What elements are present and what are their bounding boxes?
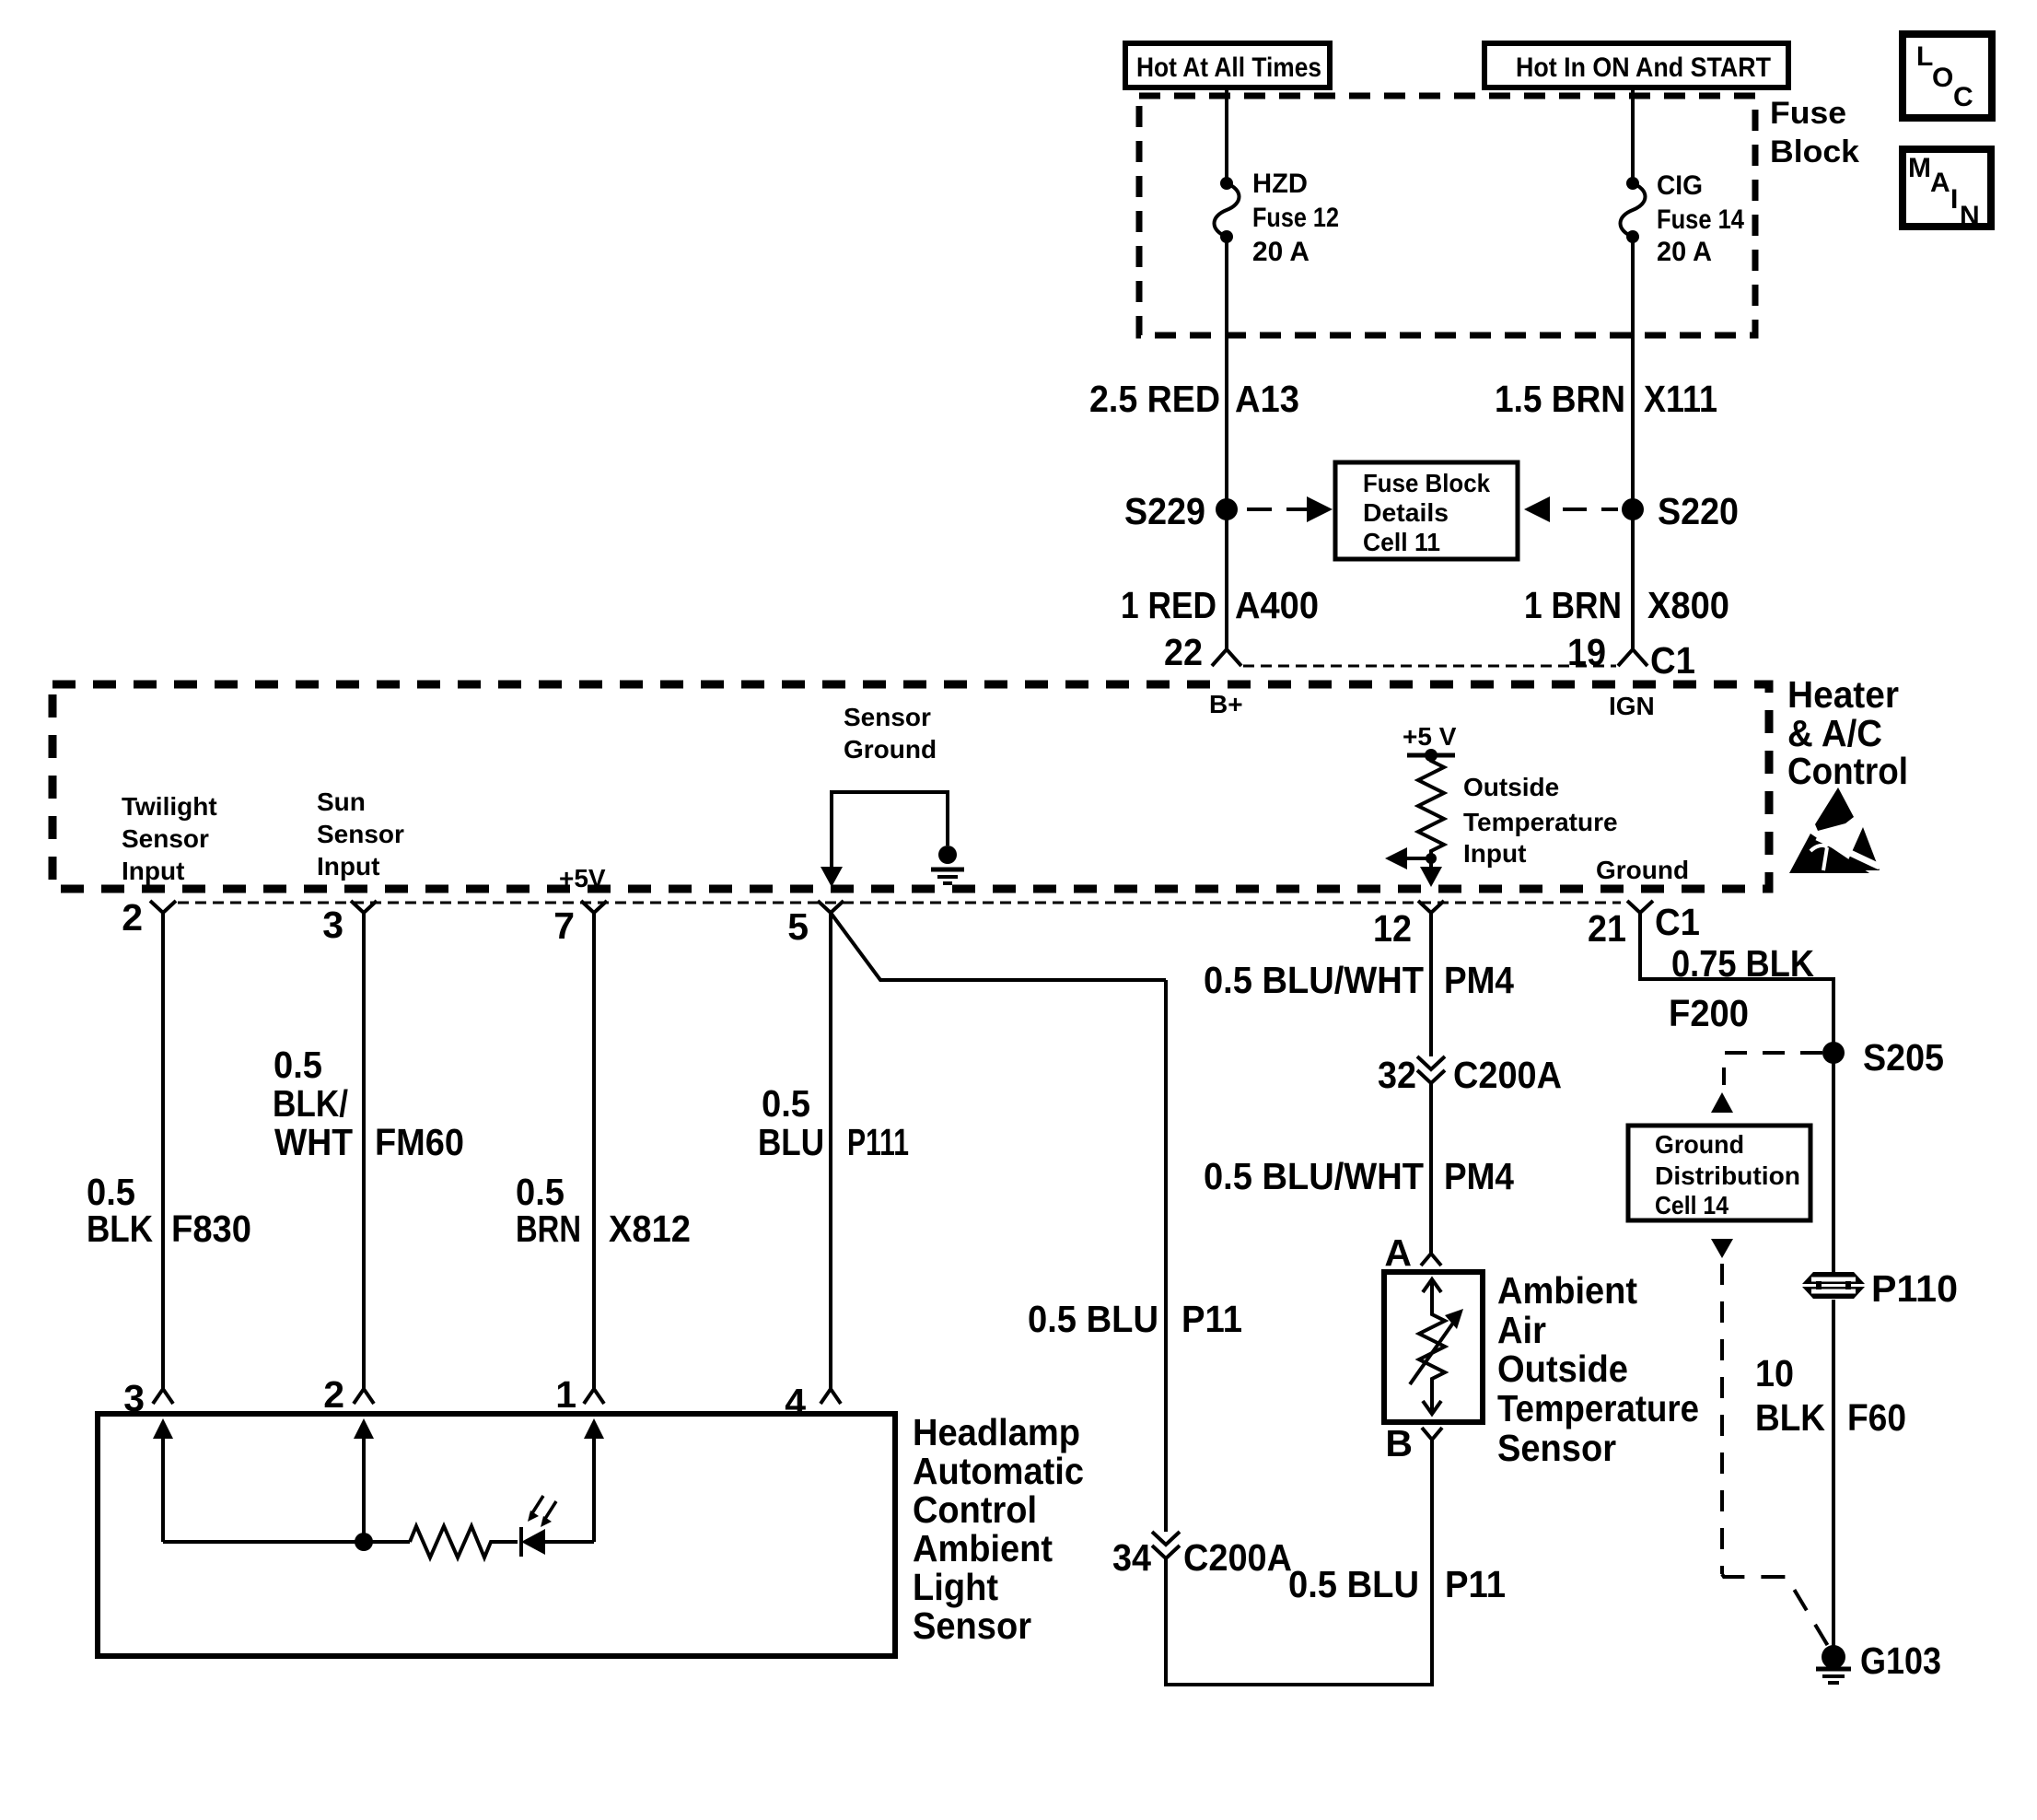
svg-text:& A/C: & A/C [1787,712,1882,754]
svg-text:Ground: Ground [1655,1130,1744,1159]
label: 0.5 BLU P11 (lower) [1288,1563,1506,1605]
svg-text:BLK/: BLK/ [273,1082,348,1125]
svg-text:BLK: BLK [1755,1396,1825,1439]
svg-text:X800: X800 [1647,584,1729,626]
svg-text:B+: B+ [1209,690,1243,718]
svg-text:S220: S220 [1658,490,1739,532]
svg-text:Details: Details [1363,498,1449,527]
svg-text:Twilight: Twilight [122,792,217,821]
svg-text:S205: S205 [1863,1036,1944,1079]
fuse block dashed box [1139,96,1755,335]
label: 1 BRN X800 [1524,584,1729,626]
pass-through grommet P110 [1802,1267,1958,1310]
photodiode (sensor internal) [521,1527,594,1557]
label: 0.5 BLU P111 [758,1082,909,1163]
label: 0.5 BLU/WHT PM4 (upper) [1204,959,1514,1001]
svg-text:0.75 BLK: 0.75 BLK [1671,942,1814,985]
label: 10 BLK F60 [1755,1352,1906,1439]
wire: PM4 lower segment to sensor pin A [1429,1083,1433,1254]
thin dashed connector line between pins 22 and 19 [1243,665,1616,668]
wire: branch from pin 5 to P11 run [831,913,1166,980]
svg-text:Control: Control [1787,750,1908,792]
internal wire with up arrow (sensor pin 2) [354,1418,374,1542]
pin 2 (sensor) [323,1373,374,1416]
internal bus wire [163,1540,410,1544]
svg-text:Sensor: Sensor [844,703,931,731]
label: 0.5 BLK/WHT FM60 [273,1044,464,1163]
svg-text:+5V: +5V [559,864,606,892]
svg-text:2: 2 [122,896,143,939]
svg-text:Ground: Ground [844,735,937,764]
svg-text:C200A: C200A [1453,1054,1562,1096]
svg-text:3: 3 [322,904,343,946]
svg-text:O: O [1932,63,1953,93]
svg-text:34: 34 [1112,1536,1151,1579]
label: 2.5 RED A13 [1089,378,1299,420]
svg-text:Light: Light [913,1566,998,1608]
pin 5 [787,901,844,948]
svg-text:A400: A400 [1235,584,1319,626]
svg-text:A: A [1384,1231,1412,1274]
svg-text:Automatic: Automatic [913,1450,1084,1492]
svg-text:Sensor: Sensor [913,1604,1031,1647]
connector C200A pin 34 [1112,1532,1292,1579]
connector C200A pin 32 [1378,1054,1562,1096]
svg-text:Ground: Ground [1596,856,1689,884]
label: Headlamp Automatic Control Ambient Light Sensor [913,1411,1084,1647]
svg-text:Block: Block [1770,134,1859,169]
reference box: Ground Distribution Cell 14 [1628,1126,1810,1220]
svg-text:Sensor: Sensor [122,824,209,853]
node S205 [1822,1036,1944,1079]
node S229 [1124,490,1238,532]
svg-text:10: 10 [1755,1352,1794,1394]
svg-text:20 A: 20 A [1657,237,1712,267]
svg-text:C1: C1 [1650,639,1695,682]
svg-text:Input: Input [317,852,379,881]
svg-text:22: 22 [1164,631,1203,673]
wire: P11 down to connector C200A pin 34 [1164,980,1168,1532]
svg-text:Hot At All Times: Hot At All Times [1136,52,1321,83]
svg-text:1 RED: 1 RED [1121,584,1216,626]
svg-text:32: 32 [1378,1054,1416,1096]
svg-text:PM4: PM4 [1444,959,1514,1001]
svg-text:Ambient: Ambient [1497,1269,1637,1312]
pin 12 [1373,901,1444,950]
svg-text:BLU: BLU [758,1121,824,1163]
light arrows into photodiode [528,1496,556,1527]
svg-text:C200A: C200A [1183,1536,1292,1579]
Ambient Air Outside Temperature Sensor box [1384,1272,1483,1422]
dashed arrow S220 to Fuse Block Details [1524,496,1618,522]
svg-text:0.5: 0.5 [274,1044,322,1086]
svg-text:F200: F200 [1669,992,1749,1034]
pin 2 [122,896,176,939]
svg-text:A: A [1930,168,1950,198]
svg-text:4: 4 [785,1381,806,1423]
svg-text:Fuse 14: Fuse 14 [1657,204,1744,235]
fuse F14 (CIG Fuse 14 20 A) [1621,177,1646,243]
svg-text:Distribution: Distribution [1655,1161,1800,1190]
label: 0.5 BLU/WHT PM4 (lower) [1204,1155,1514,1197]
svg-text:N: N [1960,201,1980,231]
wire: battery feed from Hot At All Times down to fuse 12 [1225,87,1228,183]
svg-text:BRN: BRN [516,1207,581,1250]
svg-text:0.5: 0.5 [762,1082,810,1125]
+5V supply bar and resistor (outside temperature input) [1407,749,1455,868]
svg-text:Sun: Sun [317,787,366,816]
svg-text:20 A: 20 A [1252,237,1309,267]
fuse F12 (HZD Fuse 12 20 A) [1215,177,1240,243]
svg-text:G103: G103 [1860,1639,1941,1682]
Headlamp Automatic Control Ambient Light Sensor box [98,1414,895,1656]
svg-text:P110: P110 [1871,1267,1958,1310]
label: 0.5 BLU P11 (upper) [1028,1298,1242,1340]
svg-text:P11: P11 [1181,1298,1242,1340]
svg-text:Outside: Outside [1463,773,1559,801]
svg-text:P11: P11 [1445,1563,1506,1605]
svg-text:WHT: WHT [274,1121,353,1163]
label: Sensor Ground [844,703,937,764]
wire: ignition feed from Hot In ON And START down to fuse 14 [1631,87,1635,183]
label: HZD Fuse 12 20 A [1252,169,1339,267]
svg-text:C: C [1953,82,1973,112]
svg-text:Headlamp: Headlamp [913,1411,1080,1453]
svg-text:P111: P111 [847,1121,909,1163]
svg-text:S229: S229 [1124,490,1205,532]
svg-text:F60: F60 [1847,1396,1906,1439]
thin dashed connector line (bottom pin row) [178,902,1621,904]
svg-text:PM4: PM4 [1444,1155,1514,1197]
svg-text:Control: Control [913,1488,1037,1531]
ESD sensitivity symbol [1789,787,1880,873]
dashed reference line Ground Distribution to G103 [1711,1239,1831,1651]
svg-text:Cell 14: Cell 14 [1655,1191,1729,1219]
svg-text:B: B [1385,1422,1413,1464]
wire: 10 BLK F60 [1832,1300,1835,1646]
internal wire with up arrow (sensor pin 3) [153,1418,173,1542]
svg-text:Heater: Heater [1787,673,1899,716]
svg-text:Fuse: Fuse [1770,96,1846,131]
svg-text:2: 2 [323,1373,344,1416]
svg-text:X111: X111 [1644,378,1717,420]
labels: Twilight Sensor Input [122,792,217,885]
svg-text:1: 1 [555,1373,576,1416]
left arrow (outside temperature input tap) [1385,847,1437,869]
pin 19 (IGN) [1567,631,1647,673]
labels: Outside Temperature Input [1463,773,1618,868]
svg-text:Air: Air [1497,1309,1546,1351]
label: 1.5 BRN X111 [1495,378,1717,420]
pin 21 [1588,901,1653,950]
svg-text:Cell 11: Cell 11 [1363,528,1440,556]
wire: 2.5 RED A13 segment [1225,237,1228,649]
svg-text:7: 7 [553,904,575,947]
thermistor symbol (ambient sensor internal) [1410,1279,1463,1414]
svg-text:Ambient: Ambient [913,1527,1053,1569]
wire: P11 lower run to sensor pin B [1166,1439,1432,1685]
svg-text:Hot In ON And START: Hot In ON And START [1516,52,1771,83]
MAIN reference box (top right) [1903,149,1991,231]
label: Heater & A/C Control [1787,673,1908,792]
svg-text:X812: X812 [609,1207,691,1250]
svg-text:Input: Input [122,857,184,885]
svg-text:CIG: CIG [1657,170,1703,201]
resistor (sensor internal) [410,1526,518,1557]
svg-text:Sensor: Sensor [1497,1427,1616,1469]
arrowhead down to pin 12 [1420,867,1442,887]
pin 1 (sensor) [555,1373,604,1416]
svg-text:0.5 BLU: 0.5 BLU [1288,1563,1419,1605]
junction dot (sensor internal) [355,1533,373,1551]
wire: sensor ground internal [832,792,948,873]
svg-text:Input: Input [1463,839,1526,868]
pin 22 (B+) [1164,631,1241,673]
svg-text:FM60: FM60 [375,1121,464,1163]
header box: Hot At All Times [1125,43,1330,87]
svg-text:M: M [1908,153,1931,183]
svg-text:A13: A13 [1235,378,1299,420]
node S220 [1622,490,1739,532]
header box: Hot In ON And START [1484,43,1788,87]
dashed reference line S205 to Ground Distribution [1711,1053,1822,1113]
wire: 0.5 BRN X812 (pin 7 to pin 1 of sensor) [592,913,596,1389]
arrowhead down at pin 5 internal [821,867,843,887]
wire: 0.5 BLU P111 (pin 5 to pin 4 of sensor) [829,913,832,1389]
label: 0.5 BLK F830 [87,1171,251,1250]
pin 4 (sensor) [785,1381,841,1423]
internal wire with up arrow (sensor pin 1) [584,1418,604,1542]
ground symbol (internal sensor ground) [931,846,964,883]
svg-text:I: I [1950,184,1958,215]
svg-text:1 BRN: 1 BRN [1524,584,1622,626]
label: Ambient Air Outside Temperature Sensor [1497,1269,1699,1469]
pin B (ambient sensor) [1385,1422,1442,1464]
svg-text:2.5 RED: 2.5 RED [1089,378,1220,420]
svg-text:0.5 BLU: 0.5 BLU [1028,1298,1158,1340]
svg-text:0.5 BLU/WHT: 0.5 BLU/WHT [1204,959,1424,1001]
svg-text:BLK: BLK [87,1207,153,1250]
svg-text:Outside: Outside [1497,1347,1628,1390]
pin 3 (sensor) [123,1377,173,1419]
LOC reference box (top right) [1903,34,1992,118]
svg-text:Fuse Block: Fuse Block [1363,469,1490,497]
wire: 0.75 BLK F200 from pin 21 [1640,913,1833,1272]
svg-text:5: 5 [787,905,809,948]
label: 0.5 BRN X812 [516,1171,691,1250]
svg-text:Sensor: Sensor [317,820,404,848]
wire: 0.5 BLK F830 (pin 2 to pin 3 of sensor) [161,913,165,1389]
svg-text:L: L [1916,41,1933,72]
svg-text:IGN: IGN [1609,692,1655,720]
wire: 0.5 BLU/WHT PM4 from pin 12 [1429,913,1433,1056]
label: CIG Fuse 14 20 A [1657,170,1744,267]
svg-text:HZD: HZD [1252,169,1308,199]
labels: Sun Sensor Input [317,787,404,881]
pin 7 [553,901,607,947]
svg-text:12: 12 [1373,907,1412,950]
svg-text:F830: F830 [171,1207,251,1250]
pin 3 [322,901,377,946]
label: 1 RED A400 [1121,584,1319,626]
svg-text:1.5 BRN: 1.5 BRN [1495,378,1625,420]
Heater & A/C Control dashed box [52,684,1769,889]
svg-text:0.5 BLU/WHT: 0.5 BLU/WHT [1204,1155,1424,1197]
pin A (ambient sensor) [1384,1231,1441,1274]
svg-text:Temperature: Temperature [1463,808,1618,836]
dashed arrow S229 to Fuse Block Details [1247,496,1333,522]
svg-text:+5 V: +5 V [1403,722,1457,751]
ground G103 [1816,1639,1941,1683]
svg-text:Temperature: Temperature [1497,1387,1699,1429]
label: Fuse Block [1770,96,1859,169]
svg-text:Fuse 12: Fuse 12 [1252,203,1339,233]
wire: 1.5 BRN X111 segment [1631,237,1635,649]
wire: 0.5 BLK/WHT FM60 (pin 3 to pin 2 of sensor) [362,913,366,1389]
svg-text:C1: C1 [1655,901,1700,943]
reference box: Fuse Block Details Cell 11 [1335,462,1518,559]
svg-text:21: 21 [1588,907,1626,950]
